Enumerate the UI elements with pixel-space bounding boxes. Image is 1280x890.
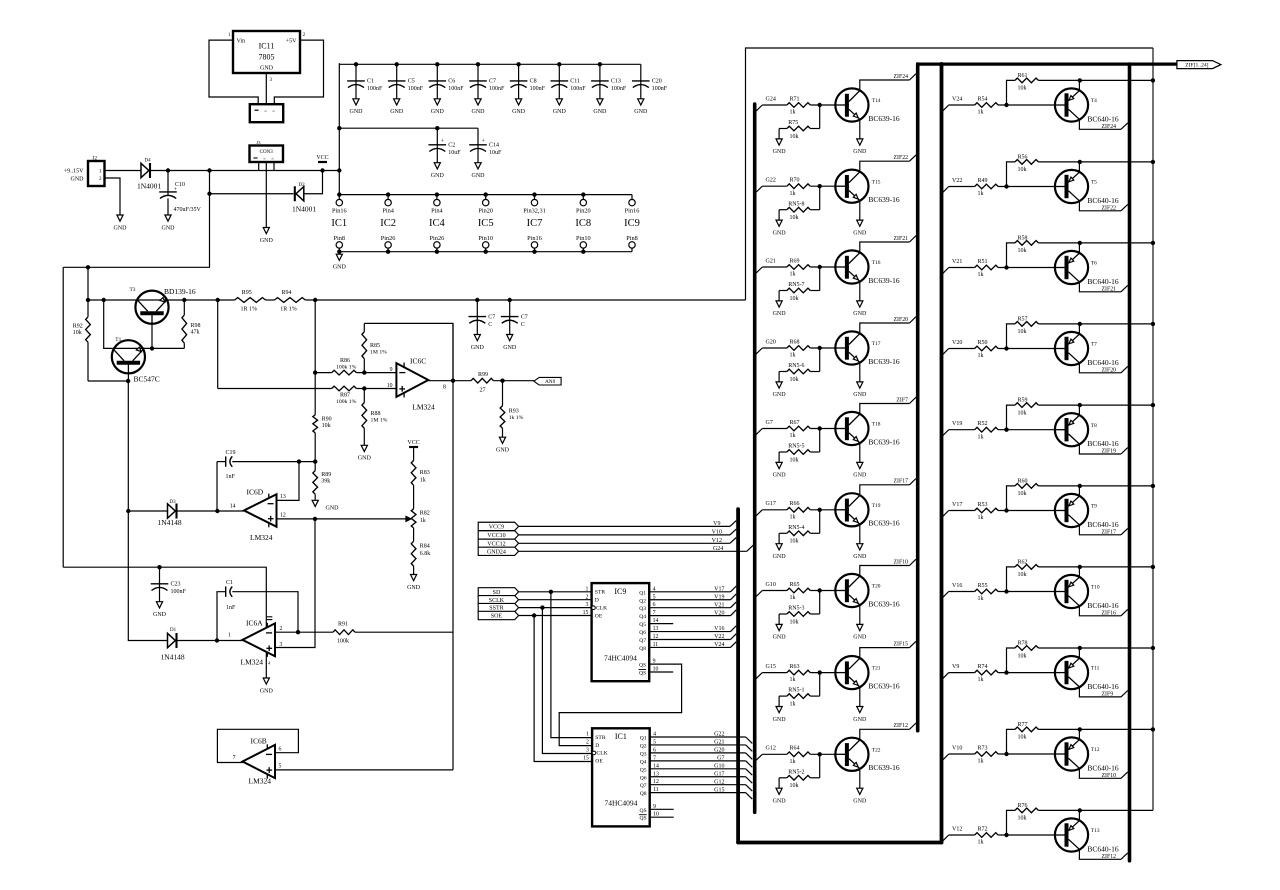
svg-text:G17: G17 [714, 771, 724, 777]
svg-text:10k: 10k [1018, 491, 1027, 497]
bus V/G feed [736, 509, 740, 842]
svg-text:GND: GND [773, 717, 787, 723]
svg-text:IC6D: IC6D [247, 488, 264, 497]
node [500, 379, 504, 383]
svg-text:2: 2 [585, 594, 588, 600]
node [1004, 265, 1008, 269]
svg-text:GND: GND [333, 265, 347, 271]
wire base [810, 266, 836, 268]
wire G24 net from G-bus [756, 105, 763, 111]
wire collector to ZIF10 [860, 566, 910, 577]
svg-text:GND: GND [553, 109, 567, 115]
svg-text:Q8: Q8 [639, 646, 646, 652]
svg-text:Pin20: Pin20 [478, 207, 493, 214]
wire collector to ZIF22 [1079, 201, 1121, 211]
svg-text:GND: GND [503, 345, 517, 351]
svg-text:V22: V22 [952, 178, 962, 184]
ground [361, 445, 367, 451]
regulator IC11 7805 [233, 31, 300, 73]
svg-text:100nF: 100nF [489, 86, 505, 92]
svg-text:10k: 10k [322, 423, 331, 429]
node [1151, 322, 1155, 326]
svg-text:10k: 10k [1018, 572, 1027, 578]
wire sense output rail [305, 299, 745, 301]
svg-text:ZIF9: ZIF9 [1102, 691, 1114, 697]
transistor T15 BC639-16 [835, 170, 868, 203]
svg-text:GND: GND [853, 717, 867, 723]
wire to IC6A pin3 [275, 519, 315, 648]
svg-text:BC640-16: BC640-16 [1087, 114, 1119, 123]
svg-text:BC547C: BC547C [134, 375, 160, 384]
svg-text:R92: R92 [73, 324, 83, 330]
net flag AN0 [534, 377, 561, 385]
wire collector to ZIF21 [860, 242, 910, 253]
svg-text:R99: R99 [478, 372, 488, 378]
wire D1 to IC6A output [177, 640, 243, 642]
node [818, 103, 822, 107]
svg-text:Pin10: Pin10 [478, 235, 493, 242]
wire G17 net [650, 776, 746, 778]
svg-text:V20: V20 [952, 340, 962, 346]
wire base [810, 753, 836, 755]
node [313, 517, 317, 521]
resistor R66 1k [787, 507, 810, 512]
svg-text:C7: C7 [521, 314, 528, 320]
node [320, 168, 324, 172]
transistor T19 BC639-16 [835, 493, 868, 526]
wire emitter up [1078, 648, 1080, 658]
ground [776, 220, 782, 226]
svg-text:G22: G22 [766, 178, 776, 184]
svg-text:R77: R77 [1018, 722, 1028, 728]
wire V17 net [649, 591, 730, 593]
svg-text:G12: G12 [766, 746, 776, 752]
node [818, 426, 822, 430]
svg-text:OE: OE [595, 759, 603, 765]
svg-text:T7: T7 [1091, 342, 1097, 348]
node [1004, 670, 1008, 674]
resistor R63 1k [787, 670, 810, 675]
wire SSTR to IC1 CLK [542, 608, 592, 754]
svg-text:GND: GND [471, 345, 485, 351]
pin Pin20 of IC5 [483, 199, 489, 205]
svg-text:100nF: 100nF [652, 86, 668, 92]
svg-text:1k: 1k [978, 110, 984, 116]
svg-text:V10: V10 [712, 530, 722, 536]
node [1004, 428, 1008, 432]
wire emitter to ground [859, 687, 861, 707]
op-amp IC6A LM324 [243, 623, 276, 656]
svg-text:10k: 10k [790, 783, 799, 789]
svg-text:D1: D1 [170, 628, 177, 633]
resistor R90 10k [313, 415, 318, 433]
svg-text:+: + [441, 138, 445, 144]
op-amp IC6C LM324 [396, 363, 428, 397]
svg-text:QS: QS [639, 816, 646, 822]
svg-text:LM324: LM324 [249, 776, 272, 785]
svg-text:BC639-16: BC639-16 [868, 519, 900, 528]
resistor R99 27 [471, 378, 494, 383]
svg-text:LM324: LM324 [412, 402, 435, 411]
pin Pin4 of IC2 [385, 199, 391, 205]
transistor T8 BC640-16 [1055, 413, 1088, 446]
svg-text:10k: 10k [790, 296, 799, 302]
wire collector to ZIF10 [1079, 768, 1121, 778]
svg-text:ZIF19: ZIF19 [1102, 449, 1117, 455]
node [1004, 589, 1008, 593]
svg-text:10k: 10k [1018, 248, 1027, 254]
wire collector to ZIF17 [1079, 525, 1121, 535]
wire T1 collector link [104, 300, 113, 348]
svg-text:R58: R58 [1018, 235, 1028, 241]
svg-text:T1: T1 [115, 337, 121, 343]
net flag SOE [478, 611, 518, 619]
svg-text:V17: V17 [952, 502, 962, 508]
svg-text:13: 13 [280, 494, 286, 500]
node [1004, 346, 1008, 350]
svg-text:IC7: IC7 [527, 218, 543, 229]
transistor T20 BC639-16 [835, 574, 868, 607]
wire IC9 QS to IC1 D [559, 664, 681, 746]
svg-text:RN5-3: RN5-3 [788, 606, 804, 612]
wire C19 to R90 node [299, 461, 315, 463]
node [818, 508, 822, 512]
svg-text:27: 27 [480, 388, 486, 394]
wire lower rail to D2 [210, 193, 294, 195]
wire T1 emitter rail [88, 380, 128, 382]
resistor R68 1k [787, 346, 810, 351]
resistor R58 10k pull-up [1007, 243, 1016, 268]
node [166, 168, 170, 172]
svg-text:2: 2 [280, 626, 283, 632]
svg-text:1k 1%: 1k 1% [509, 415, 524, 421]
capacitor C6 100nF [436, 64, 438, 84]
resistor RN5-2 10k [819, 754, 821, 778]
svg-text:RN5-6: RN5-6 [788, 363, 804, 369]
resistor R62 10k pull-up [1007, 567, 1016, 592]
resistor R54 1k [975, 103, 998, 108]
node [1151, 565, 1155, 569]
wire CON3 pin1 stub [258, 162, 260, 171]
wire emitter up [1078, 729, 1080, 739]
resistor R72 1k [975, 833, 998, 838]
svg-text:CLK: CLK [596, 606, 607, 612]
svg-text:GND: GND [496, 448, 510, 454]
svg-text:GND: GND [260, 688, 274, 694]
svg-text:R88: R88 [371, 411, 381, 417]
svg-text:GND: GND [853, 799, 867, 805]
wire IC6B pin5 input [275, 769, 453, 771]
capacitor C11 100nF [558, 64, 560, 84]
svg-text:T18: T18 [872, 422, 881, 428]
svg-text:ZIF10: ZIF10 [894, 559, 909, 565]
node [818, 265, 822, 269]
svg-text:+9..15V: +9..15V [64, 169, 84, 175]
svg-text:C1: C1 [226, 580, 233, 586]
svg-text:Pin4: Pin4 [431, 207, 443, 214]
svg-text:14: 14 [230, 503, 236, 509]
svg-text:R67: R67 [790, 420, 800, 426]
svg-text:R51: R51 [978, 259, 988, 265]
wire V12 net from V-bus [942, 835, 948, 841]
wire emitter up [1078, 486, 1080, 496]
svg-text:IC11: IC11 [259, 42, 275, 51]
svg-text:GND: GND [390, 109, 404, 115]
resistor R56 10k pull-up [1007, 162, 1016, 187]
svg-text:VCC: VCC [316, 155, 328, 161]
svg-text:R86: R86 [340, 358, 350, 364]
wire to IC6D pin13 [277, 462, 300, 501]
svg-text:Pin32,31: Pin32,31 [523, 207, 546, 214]
svg-text:100nF: 100nF [171, 589, 187, 595]
svg-text:GND: GND [260, 65, 274, 71]
svg-text:GND: GND [853, 311, 867, 317]
node [1004, 103, 1008, 107]
svg-text:T13: T13 [1091, 828, 1100, 834]
svg-text:IC6B: IC6B [251, 737, 267, 746]
wire emitter up [1078, 162, 1080, 172]
wire base [998, 510, 1055, 512]
svg-text:R98: R98 [191, 323, 201, 329]
svg-text:D4: D4 [145, 159, 152, 164]
wire base [810, 428, 836, 430]
svg-text:V19: V19 [714, 594, 724, 600]
svg-text:ZIF10: ZIF10 [1102, 773, 1117, 779]
svg-text:IC6A: IC6A [246, 618, 263, 627]
capacitor C7 100nF [477, 64, 479, 84]
svg-text:100nF: 100nF [408, 86, 424, 92]
node [313, 459, 317, 463]
wire G17 net from G-bus [756, 510, 763, 516]
svg-text:VCC: VCC [407, 440, 419, 446]
pin Pin26 of IC4 [434, 242, 440, 248]
svg-text:1k: 1k [790, 110, 796, 116]
wire collector to ZIF22 [860, 161, 910, 172]
connector J2 [88, 161, 105, 186]
svg-text:C23: C23 [171, 582, 181, 588]
svg-text:BC639-16: BC639-16 [868, 276, 900, 285]
node [207, 168, 211, 172]
svg-text:CON3: CON3 [260, 150, 274, 155]
resistor R70 1k [787, 184, 810, 189]
node [818, 752, 822, 756]
wire collector to ZIF15 [860, 648, 910, 659]
svg-text:R87: R87 [340, 393, 350, 399]
svg-text:39k: 39k [321, 478, 330, 484]
svg-text:GND: GND [773, 473, 787, 479]
svg-text:10k: 10k [1018, 816, 1027, 822]
svg-text:G21: G21 [766, 258, 776, 264]
svg-text:Pin10: Pin10 [576, 235, 591, 242]
ground [857, 788, 863, 794]
pin Pin26 of IC2 [385, 242, 391, 248]
wire unregulated feed down-left [63, 171, 209, 268]
wire G21 net from G-bus [756, 267, 763, 273]
wire emitter to ground [859, 524, 861, 544]
svg-text:GND: GND [114, 225, 128, 231]
wire C19 left down [216, 462, 218, 511]
wire G10 net [650, 768, 746, 770]
resistor R49 1k [975, 184, 998, 189]
svg-text:Q6: Q6 [640, 775, 647, 781]
svg-text:T6: T6 [1091, 261, 1097, 267]
resistor R92 10k [86, 317, 91, 342]
transistor T4 BC640-16 [1055, 88, 1088, 121]
svg-text:3: 3 [280, 642, 283, 648]
svg-text:ZIF22: ZIF22 [894, 155, 909, 161]
svg-text:10: 10 [387, 383, 393, 389]
node [216, 298, 220, 302]
resistor R87 100k 1% [332, 386, 357, 391]
wire T1 emitter to R98 [112, 347, 184, 349]
resistor R50 1k [975, 346, 998, 351]
wire emitter to ground [859, 201, 861, 221]
resistor R93 1k 1% [502, 381, 504, 406]
wire base [810, 104, 836, 106]
wire SSTR net [519, 607, 592, 609]
svg-text:BC640-16: BC640-16 [1087, 844, 1119, 853]
svg-text:STR: STR [595, 590, 606, 596]
resistor R75 10k [819, 105, 821, 129]
svg-text:T10: T10 [1091, 585, 1100, 591]
svg-text:470uF/35V: 470uF/35V [174, 207, 202, 213]
resistor R83 1k [413, 447, 415, 460]
resistor RN5-6 10k [819, 348, 821, 372]
wire SD net [519, 591, 592, 593]
svg-text:10k: 10k [790, 134, 799, 140]
svg-text:ZIF15: ZIF15 [894, 641, 909, 647]
wire IC6B follower loop [217, 729, 298, 762]
svg-text:LM324: LM324 [250, 533, 273, 542]
svg-text:R55: R55 [978, 583, 988, 589]
resistor R60 10k pull-up [1007, 486, 1016, 511]
svg-text:T9: T9 [1091, 504, 1097, 510]
wire D2 to VCC rail [304, 171, 323, 194]
svg-text:1k: 1k [790, 191, 796, 197]
svg-text:R78: R78 [1018, 640, 1028, 646]
svg-text:G12: G12 [714, 779, 724, 785]
wire R87 sense tap [217, 300, 219, 389]
wire IC11 pin2 to connector [274, 40, 323, 104]
wire collector to ZIF19 [1079, 444, 1121, 454]
node [1078, 241, 1082, 245]
node [126, 379, 130, 383]
wire G7 net from G-bus [756, 429, 763, 435]
wire collector to ZIF7 [860, 404, 910, 415]
svg-text:1k: 1k [978, 353, 984, 359]
svg-text:15: 15 [583, 610, 589, 616]
svg-text:V24: V24 [714, 642, 724, 648]
wire collector to ZIF20 [860, 323, 910, 334]
svg-text:R60: R60 [1018, 478, 1028, 484]
transistor T7 BC640-16 [1055, 332, 1088, 365]
node [818, 184, 822, 188]
capacitor C13 100nF [599, 64, 601, 84]
svg-text:G21: G21 [714, 740, 724, 746]
svg-text:47k: 47k [191, 329, 200, 335]
svg-text:1: 1 [585, 586, 588, 592]
svg-text:RN5-5: RN5-5 [788, 444, 804, 450]
wire G7 net [650, 760, 746, 762]
resistor R71 1k [787, 103, 810, 108]
svg-text:G15: G15 [766, 664, 776, 670]
svg-text:V24: V24 [952, 96, 962, 102]
wire V20 net [649, 615, 730, 617]
resistor R61 10k pull-up [1007, 80, 1016, 105]
resistor R69 1k [787, 265, 810, 270]
wire base node to D1 [128, 511, 167, 641]
wire left feed vertical [62, 267, 64, 567]
svg-text:GND: GND [853, 149, 867, 155]
wire collector to ZIF21 [1079, 282, 1121, 292]
svg-text:G15: G15 [714, 787, 724, 793]
svg-text:RN5-8: RN5-8 [788, 201, 804, 207]
wire R92 branch vertical [87, 267, 89, 317]
ground [857, 624, 863, 630]
svg-text:ZIF20: ZIF20 [1102, 367, 1117, 373]
svg-text:R82: R82 [420, 511, 430, 517]
wire V21 net [649, 607, 730, 609]
svg-text:QS: QS [639, 671, 646, 677]
connector CON2 below regulator [250, 104, 283, 122]
svg-text:1k: 1k [978, 677, 984, 683]
svg-text:T15: T15 [872, 179, 881, 185]
svg-text:T16: T16 [872, 260, 881, 266]
wire base [810, 347, 836, 349]
svg-text:T3: T3 [130, 287, 136, 293]
svg-text:T8: T8 [1091, 423, 1097, 429]
capacitor C23 100nF [159, 567, 161, 587]
wire IC supply top rail [339, 194, 632, 196]
wire emitter up [1078, 324, 1080, 334]
wire emitter to ground [859, 119, 861, 138]
svg-text:12: 12 [280, 513, 286, 519]
svg-text:IC2: IC2 [380, 218, 396, 229]
svg-text:GND: GND [358, 456, 372, 462]
svg-text:V9: V9 [713, 521, 720, 527]
capacitor C1 100nF [355, 64, 357, 84]
ic IC9 74HC4094 [592, 583, 650, 681]
svg-text:1k: 1k [790, 677, 796, 683]
svg-text:C7: C7 [488, 314, 495, 320]
svg-text:G10: G10 [766, 582, 776, 588]
wire emitter up [1078, 567, 1080, 577]
wire G21 net [650, 744, 746, 746]
pin Pin20 of IC8 [580, 199, 586, 205]
svg-text:1N4148: 1N4148 [158, 518, 182, 527]
svg-text:ZIF16: ZIF16 [1102, 610, 1117, 616]
ground [857, 462, 863, 468]
svg-text:1k: 1k [420, 518, 426, 524]
wire G15 net [650, 792, 746, 794]
wire IC6A pin4 ground [265, 653, 267, 678]
wire emitter to ground [859, 605, 861, 625]
svg-text:GND: GND [853, 554, 867, 560]
svg-text:Q7: Q7 [639, 638, 646, 644]
node [215, 638, 219, 642]
svg-text:R65: R65 [790, 582, 800, 588]
svg-text:VCC12: VCC12 [487, 541, 505, 547]
wire G22 net from G-bus [756, 186, 763, 192]
svg-text:GND: GND [407, 585, 421, 591]
wire J2 pin2 to ground [105, 178, 121, 215]
svg-text:1k: 1k [978, 840, 984, 846]
svg-text:Q5: Q5 [639, 622, 646, 628]
transistor T17 BC639-16 [835, 331, 868, 364]
resistor R51 1k [975, 265, 998, 270]
svg-text:1k: 1k [790, 759, 796, 765]
svg-text:10uF: 10uF [489, 150, 502, 156]
